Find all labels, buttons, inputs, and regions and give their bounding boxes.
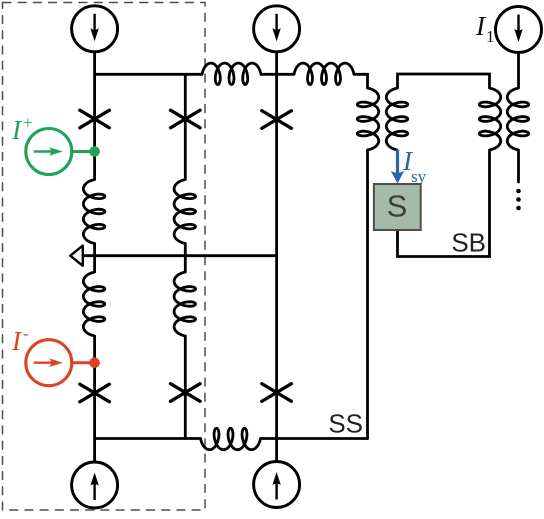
josephson junction J3 (branch3 top)	[262, 111, 292, 129]
inductor L2b (branch2 lower coil)	[174, 272, 195, 336]
josephson junction J1 (branch1 top)	[80, 110, 110, 128]
wire branch2 lower segment	[184, 336, 187, 439]
current source bottom branch3 (up arrow)	[254, 462, 300, 508]
inductor L5 (SS transformer primary)	[357, 88, 378, 150]
wire S box bottom to SB bottom rail	[398, 150, 490, 257]
dashed boundary of synapse cell	[3, 3, 206, 511]
wire branch1 mid segment	[93, 244, 96, 273]
wire SS right side down	[366, 150, 369, 439]
ellipsis dots continuation	[516, 189, 521, 194]
inductor L1b (branch1 lower coil)	[83, 272, 104, 336]
svg-text:-: -	[23, 324, 29, 343]
wire top rail left	[95, 73, 202, 76]
inductor L7 (SB transformer secondary)	[386, 88, 407, 150]
wire bottom rail left	[95, 437, 201, 440]
josephson junction J5 (branch2 bottom)	[171, 384, 201, 402]
green junction dot	[89, 146, 100, 157]
green link wire	[72, 150, 95, 153]
svg-text:SS: SS	[328, 409, 363, 439]
josephson junction J6 (branch3 bottom)	[262, 384, 292, 402]
wire top rail to SS primary	[354, 74, 368, 88]
wire top rail mid	[261, 73, 294, 76]
wire branch2 mid segment	[184, 244, 187, 273]
wire branch3 vertical	[275, 52, 278, 463]
red link wire	[72, 361, 95, 364]
current source bottom branch1 (up arrow)	[72, 462, 118, 508]
wire branch1 lower segment	[93, 336, 96, 462]
red junction dot	[89, 357, 100, 368]
blue current arrow Isy	[396, 150, 399, 175]
wire I1 source to coil	[517, 52, 520, 88]
synapse box S	[374, 184, 421, 230]
inductor L8 (SB right coil)	[479, 88, 500, 150]
inductor L3 (top rail left coil)	[202, 63, 261, 84]
svg-text:SB: SB	[451, 228, 486, 258]
inductor L9 (I1 branch coil)	[507, 88, 528, 150]
open triangle arrow on mid rail	[70, 246, 83, 266]
josephson junction J2 (branch2 top)	[171, 110, 201, 128]
wire branch2 upper segment	[184, 74, 187, 179]
wire branch1 upper segment	[93, 52, 96, 180]
current source top branch1 (down arrow)	[72, 6, 118, 52]
red bias source I- circle	[26, 340, 72, 386]
wire I1 coil down to dots	[517, 150, 520, 182]
wire SB top rail	[398, 74, 490, 88]
inductor L6 (bottom rail coil)	[201, 428, 261, 449]
svg-text:+: +	[23, 113, 33, 132]
inductor L2a (branch2 upper coil)	[174, 180, 195, 244]
wire mid rail (phi node)	[83, 254, 277, 257]
svg-text:S: S	[387, 189, 408, 224]
current source top branch3 (down arrow)	[254, 6, 300, 52]
green bias source I+ circle	[26, 129, 72, 175]
josephson junction J4 (branch1 bottom)	[80, 384, 110, 402]
current source I1 (down arrow)	[496, 7, 542, 53]
inductor L4 (top rail right coil)	[294, 63, 354, 84]
inductor L1a (branch1 upper coil)	[83, 180, 104, 244]
svg-text:1: 1	[486, 27, 495, 46]
wire bottom rail right	[261, 437, 368, 440]
